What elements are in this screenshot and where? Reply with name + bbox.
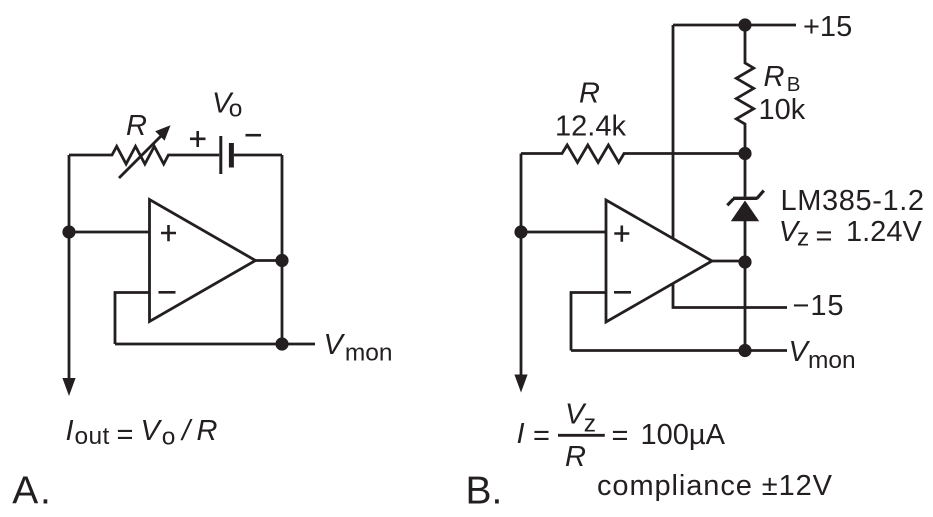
- svg-text:+15: +15: [803, 11, 852, 43]
- svg-text:R: R: [565, 441, 586, 473]
- svg-text:V: V: [324, 329, 346, 361]
- svg-text:mon: mon: [345, 340, 393, 367]
- svg-text:10k: 10k: [759, 94, 806, 126]
- svg-text:=: =: [816, 220, 833, 252]
- svg-text:R: R: [764, 61, 785, 93]
- svg-text:/: /: [180, 415, 193, 447]
- svg-text:I: I: [517, 418, 525, 450]
- svg-text:compliance ±12V: compliance ±12V: [597, 470, 833, 502]
- svg-text:R: R: [126, 110, 147, 142]
- svg-text:o: o: [162, 424, 176, 451]
- svg-text:R: R: [579, 78, 600, 110]
- svg-text:100µA: 100µA: [641, 419, 726, 451]
- svg-text:R: R: [197, 415, 218, 447]
- svg-text:B.: B.: [466, 470, 503, 513]
- svg-text:out: out: [75, 423, 110, 450]
- svg-text:=: =: [117, 419, 134, 451]
- svg-text:B: B: [787, 73, 801, 96]
- svg-text:o: o: [229, 96, 243, 123]
- svg-text:I: I: [66, 415, 74, 447]
- svg-text:LM385-1.2: LM385-1.2: [781, 185, 925, 217]
- svg-text:−15: −15: [793, 290, 844, 322]
- svg-text:=: =: [533, 420, 550, 452]
- svg-text:=: =: [612, 420, 629, 452]
- svg-text:V: V: [141, 415, 163, 447]
- svg-text:z: z: [584, 411, 596, 438]
- svg-text:12.4k: 12.4k: [555, 111, 626, 143]
- svg-text:mon: mon: [808, 347, 856, 374]
- svg-text:A.: A.: [12, 470, 51, 513]
- svg-text:z: z: [797, 225, 809, 252]
- svg-text:1.24V: 1.24V: [846, 216, 922, 248]
